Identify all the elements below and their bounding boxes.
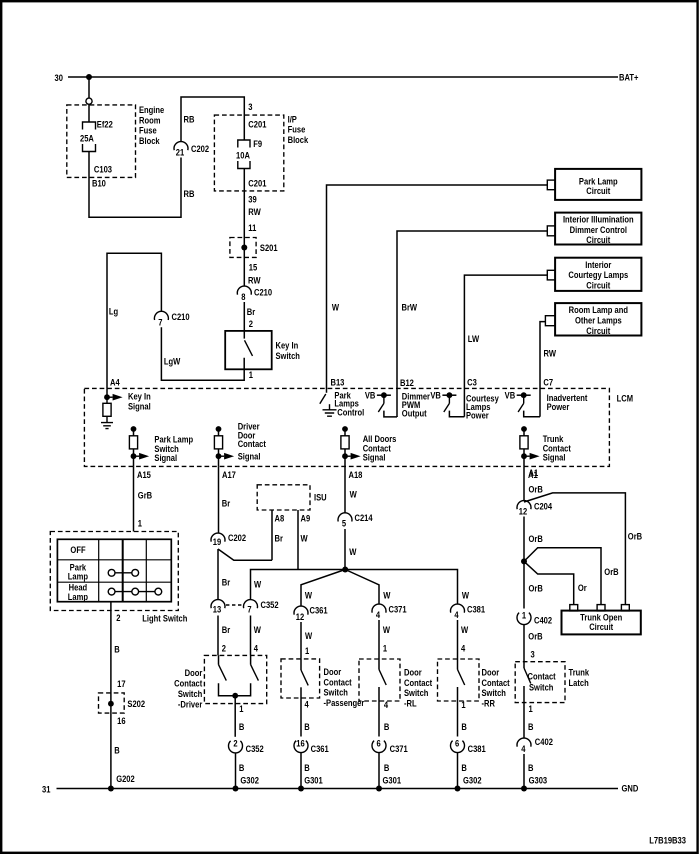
wire driver pin 2 stub <box>218 655 220 664</box>
LCM C3 VB switch <box>442 394 456 396</box>
wire OrB from C204 to junction <box>523 517 525 562</box>
wire C352 pin7 to driver pin 4 <box>250 616 252 656</box>
connector C371 pin 6 <box>372 741 386 753</box>
connector C214 pin 5 <box>338 513 352 522</box>
svg-text:25A: 25A <box>80 133 95 144</box>
wire Br to key in switch <box>243 302 245 339</box>
wire key in switch pin1 left to C210 pin7 <box>161 327 244 380</box>
svg-text:4: 4 <box>376 609 380 620</box>
svg-text:8: 8 <box>241 291 245 302</box>
svg-text:OrB: OrB <box>529 483 543 494</box>
svg-text:C381: C381 <box>468 743 486 754</box>
trunk latch contact switch <box>523 662 525 668</box>
svg-text:F9: F9 <box>253 138 262 149</box>
svg-text:7: 7 <box>247 603 251 614</box>
svg-text:Or: Or <box>578 582 587 593</box>
wire driver pin 1 down to C352 pin 2 <box>234 696 236 737</box>
connector C204 pin 12 <box>517 501 531 510</box>
connector C352 pin 13 <box>211 600 225 609</box>
wire fuse Ef22 down and right to RB riser <box>89 152 181 218</box>
svg-text:G202: G202 <box>116 773 135 784</box>
LCM B12 VB switch <box>377 394 391 396</box>
wire B to G302 <box>457 753 459 789</box>
svg-text:B: B <box>461 762 466 773</box>
interior courtesy lamps circuit box <box>555 258 641 291</box>
svg-text:16: 16 <box>117 715 126 726</box>
LCM module box <box>84 388 609 466</box>
svg-text:Br: Br <box>247 306 256 317</box>
svg-text:4: 4 <box>305 699 309 710</box>
wire C361 pin12 to passenger pin 1 <box>300 622 302 659</box>
svg-text:C361: C361 <box>310 604 328 615</box>
wire Br down to C352 pin 13 <box>217 549 219 600</box>
svg-text:Circuit: Circuit <box>589 621 613 632</box>
svg-text:B: B <box>114 643 119 654</box>
net GND bus wire <box>57 788 619 790</box>
svg-text:19: 19 <box>213 536 222 547</box>
light switch outer box <box>50 532 178 611</box>
svg-text:C402: C402 <box>535 736 553 747</box>
svg-text:13: 13 <box>213 603 222 614</box>
wire BAT+ to fuse block <box>88 77 90 98</box>
connector C352 pin 7 <box>243 600 257 609</box>
svg-text:Switch: Switch <box>276 350 300 361</box>
junction on BAT+ <box>86 74 92 80</box>
svg-text:B: B <box>239 721 244 732</box>
svg-text:12: 12 <box>519 505 528 516</box>
svg-text:LW: LW <box>468 333 480 344</box>
svg-text:5: 5 <box>342 518 346 529</box>
svg-text:C201: C201 <box>248 119 266 130</box>
LCM trunk contact signal input <box>521 426 527 432</box>
light switch head lamp contacts <box>108 588 115 595</box>
svg-text:C210: C210 <box>172 311 190 322</box>
svg-text:G302: G302 <box>463 774 482 785</box>
LCM pin A4 key in signal <box>106 388 108 397</box>
svg-text:RB: RB <box>184 113 195 124</box>
wire RW from LCM C7 to room lamp circuit <box>540 322 545 417</box>
svg-text:OrB: OrB <box>529 533 543 544</box>
wire OrB junction down to C402 pin 1 <box>523 561 525 608</box>
wire W from A18 to C214 <box>344 466 346 512</box>
svg-text:4: 4 <box>454 609 458 620</box>
svg-text:Power: Power <box>547 401 570 412</box>
svg-text:3: 3 <box>248 101 252 112</box>
svg-text:S202: S202 <box>127 698 145 709</box>
svg-text:W: W <box>301 532 309 543</box>
svg-text:B13: B13 <box>331 376 345 387</box>
svg-text:-Driver: -Driver <box>178 699 203 710</box>
svg-text:RW: RW <box>248 274 261 285</box>
wire OrB from A1 to C204 <box>523 466 525 500</box>
wire C381 pin4 to RR pin 4 <box>457 620 459 659</box>
svg-text:C371: C371 <box>390 743 408 754</box>
svg-text:C202: C202 <box>191 143 209 154</box>
svg-text:6: 6 <box>376 738 380 749</box>
svg-text:4: 4 <box>521 743 525 754</box>
svg-text:C381: C381 <box>467 603 485 614</box>
svg-text:1: 1 <box>239 703 243 714</box>
svg-text:B: B <box>528 721 533 732</box>
svg-text:2: 2 <box>249 318 253 329</box>
svg-text:C3: C3 <box>467 377 477 388</box>
LCM driver door contact signal input <box>216 426 222 432</box>
svg-text:C202: C202 <box>228 532 246 543</box>
svg-text:G301: G301 <box>383 774 402 785</box>
svg-text:-RR: -RR <box>482 698 496 709</box>
svg-text:W: W <box>383 624 391 635</box>
wire Or junction to trunk open circuit left tab <box>524 561 574 604</box>
svg-text:B: B <box>239 762 244 773</box>
svg-text:Output: Output <box>402 407 427 418</box>
svg-text:7: 7 <box>158 316 162 327</box>
svg-text:ISU: ISU <box>314 491 327 502</box>
wire Br from A17 to C202 pin 19 <box>218 466 220 533</box>
wire OrB branch to trunk open circuit right tab <box>524 493 625 605</box>
svg-text:31: 31 <box>42 783 51 794</box>
driver switch blades <box>219 665 259 681</box>
svg-text:A9: A9 <box>301 512 311 523</box>
svg-text:21: 21 <box>176 146 185 157</box>
junction trunk node <box>521 558 527 564</box>
svg-text:11: 11 <box>248 222 256 233</box>
svg-text:GND: GND <box>622 783 639 794</box>
svg-text:Signal: Signal <box>128 401 151 412</box>
svg-text:2: 2 <box>116 612 120 623</box>
net BAT+ bus wire <box>68 76 618 78</box>
wire driver pin 4 stub <box>250 655 252 664</box>
svg-text:Circuit: Circuit <box>586 185 610 196</box>
svg-text:Br: Br <box>275 532 284 543</box>
wire junction to C371 pin 4 <box>345 570 379 605</box>
I/P fuse block box <box>214 115 283 191</box>
dashed link between C352 pins <box>226 604 243 606</box>
LCM B13 park lamps control switch <box>320 394 326 404</box>
key in switch box <box>225 331 272 369</box>
wire W from C214 to junction <box>344 529 346 570</box>
wire Lg up over and down to LCM A4 <box>107 253 161 388</box>
svg-text:4: 4 <box>254 643 258 654</box>
svg-text:39: 39 <box>248 194 257 205</box>
svg-text:Br: Br <box>222 576 231 587</box>
svg-text:B: B <box>304 762 309 773</box>
wire B from C402 pin4 to G303 <box>523 754 525 789</box>
connector ring C103 <box>86 98 92 104</box>
wire C371 pin4 to RL pin 1 <box>378 620 380 659</box>
svg-text:17: 17 <box>117 678 126 689</box>
svg-text:OrB: OrB <box>604 566 618 577</box>
svg-text:-RL: -RL <box>404 698 417 709</box>
svg-text:A18: A18 <box>349 469 363 480</box>
svg-text:Latch: Latch <box>569 677 589 688</box>
connector C361 pin 16 <box>294 741 308 753</box>
svg-text:BrW: BrW <box>402 301 418 312</box>
svg-text:Circuit: Circuit <box>586 280 610 291</box>
svg-text:Circuit: Circuit <box>586 325 610 336</box>
svg-text:B: B <box>384 721 389 732</box>
svg-text:C361: C361 <box>311 743 329 754</box>
wire junction to C361 pin 12 <box>301 570 345 607</box>
wire light switch pin 2 down to ground G202 <box>110 602 112 789</box>
wire OrB from C402 pin1 to trunk latch <box>523 625 525 662</box>
svg-text:Signal: Signal <box>154 452 177 463</box>
wire ISU A8 Br <box>271 510 273 560</box>
svg-text:Lg: Lg <box>109 306 118 317</box>
svg-text:B: B <box>528 762 533 773</box>
wire LW from LCM C3 to courtesy lamps circuit <box>464 275 547 417</box>
svg-text:Block: Block <box>139 135 160 146</box>
svg-text:Br: Br <box>222 498 231 509</box>
light switch park lamp contacts <box>108 569 115 576</box>
connector C371 pin 4 <box>372 604 386 613</box>
svg-text:Signal: Signal <box>543 452 566 463</box>
svg-text:C103: C103 <box>94 163 112 174</box>
svg-text:RW: RW <box>248 206 261 217</box>
svg-text:W: W <box>462 590 470 601</box>
wire F9 down to key in switch <box>243 169 245 287</box>
svg-text:A1: A1 <box>529 467 539 478</box>
resistor in key in signal <box>103 403 111 416</box>
svg-text:Block: Block <box>288 134 309 145</box>
svg-text:1: 1 <box>305 645 309 656</box>
svg-text:B: B <box>461 721 466 732</box>
trunk open circuit box <box>562 611 641 635</box>
svg-text:C201: C201 <box>248 178 266 189</box>
svg-text:G301: G301 <box>304 774 323 785</box>
light switch inner table <box>57 539 171 601</box>
svg-text:Switch: Switch <box>178 688 202 699</box>
svg-text:C371: C371 <box>389 603 407 614</box>
svg-text:3: 3 <box>531 648 535 659</box>
svg-text:10A: 10A <box>236 149 251 160</box>
door contact switch RR box <box>438 659 480 701</box>
connector C202 pin 19 <box>211 533 225 542</box>
svg-text:2: 2 <box>222 643 226 654</box>
svg-text:1: 1 <box>383 642 387 653</box>
svg-text:30: 30 <box>55 72 64 83</box>
wire junction to C352 pin 7 <box>251 570 346 600</box>
svg-text:OFF: OFF <box>70 544 85 555</box>
door contact switch RL box <box>359 659 400 701</box>
wire B to G301 <box>300 753 302 789</box>
ISU box <box>257 485 310 510</box>
wire RB riser up and over to I/P fuse <box>181 97 244 142</box>
svg-text:C402: C402 <box>534 615 552 626</box>
wire junction to C381 pin 4 <box>345 570 457 605</box>
svg-text:Br: Br <box>222 624 231 635</box>
svg-text:1: 1 <box>138 518 142 529</box>
wire B to G301 <box>378 753 380 789</box>
svg-text:C210: C210 <box>254 286 272 297</box>
svg-text:C204: C204 <box>534 500 552 511</box>
svg-text:B10: B10 <box>92 178 106 189</box>
junction all doors node <box>342 567 348 573</box>
svg-text:LgW: LgW <box>164 356 181 367</box>
connector C352 pin 2 <box>229 741 243 753</box>
engine room fuse block box <box>67 105 136 177</box>
svg-text:Circuit: Circuit <box>586 234 610 245</box>
svg-text:VB: VB <box>365 390 376 401</box>
svg-text:C214: C214 <box>355 512 373 523</box>
connector C381 pin 6 <box>450 741 464 753</box>
svg-text:W: W <box>305 630 313 641</box>
svg-text:RB: RB <box>184 188 195 199</box>
svg-text:Signal: Signal <box>238 451 261 462</box>
svg-text:16: 16 <box>296 738 305 749</box>
svg-text:15: 15 <box>249 261 258 272</box>
door contact switch passenger box <box>281 659 320 698</box>
svg-text:Control: Control <box>337 406 364 417</box>
svg-text:Contact: Contact <box>528 671 556 682</box>
wire W from LCM B13 to park lamp circuit <box>327 185 548 393</box>
svg-text:Contact: Contact <box>238 438 266 449</box>
connector C361 pin 12 <box>294 606 308 615</box>
wire C352 pin13 to driver pin 2 <box>217 616 219 656</box>
svg-text:GrB: GrB <box>138 489 152 500</box>
passenger switch <box>300 659 302 670</box>
connector C210 pin 7 <box>154 311 168 320</box>
svg-text:VB: VB <box>505 390 516 401</box>
connector C202 pin 21 <box>174 142 188 151</box>
svg-text:Signal: Signal <box>363 452 386 463</box>
svg-text:1: 1 <box>249 369 253 380</box>
svg-text:1: 1 <box>461 699 465 710</box>
wire BrW from LCM B12 to dimmer circuit <box>397 231 547 417</box>
svg-text:A15: A15 <box>137 469 151 480</box>
svg-text:A4: A4 <box>110 376 120 387</box>
svg-text:4: 4 <box>461 642 465 653</box>
svg-text:C352: C352 <box>261 599 279 610</box>
svg-text:12: 12 <box>296 611 305 622</box>
svg-text:B12: B12 <box>400 377 414 388</box>
door contact switch driver box <box>204 655 266 703</box>
connector C402 pin 1 <box>517 613 531 625</box>
svg-text:W: W <box>254 624 262 635</box>
svg-text:Interior Illumination: Interior Illumination <box>563 214 634 225</box>
svg-text:W: W <box>332 301 340 312</box>
LCM park lamp switch signal input <box>131 426 137 432</box>
svg-text:OrB: OrB <box>528 630 542 641</box>
svg-text:OrB: OrB <box>529 582 543 593</box>
trunk latch box <box>515 662 565 703</box>
svg-text:S201: S201 <box>260 242 278 253</box>
interior illumination dimmer control circuit box <box>555 213 641 245</box>
svg-text:1: 1 <box>522 609 526 620</box>
wire ring to fuse Ef22 <box>88 104 90 122</box>
svg-text:W: W <box>349 546 357 557</box>
splice S202 <box>99 693 125 713</box>
svg-text:VB: VB <box>430 390 441 401</box>
splice S201 <box>230 238 256 258</box>
room lamp and other lamps circuit box <box>555 303 641 335</box>
svg-text:6: 6 <box>455 738 459 749</box>
key in switch blade <box>245 340 253 356</box>
svg-text:OrB: OrB <box>628 531 642 542</box>
svg-text:Power: Power <box>466 409 489 420</box>
fuse F9 10A <box>238 140 250 148</box>
LCM all doors contact signal input <box>342 426 348 432</box>
svg-text:4: 4 <box>384 699 388 710</box>
svg-text:G302: G302 <box>240 774 259 785</box>
park lamp circuit box <box>555 169 641 200</box>
wire Br fork to ISU A8 join <box>218 549 272 560</box>
svg-text:RW: RW <box>544 347 557 358</box>
svg-text:W: W <box>305 590 313 601</box>
connector C402 pin 4 <box>517 738 531 747</box>
svg-text:BAT+: BAT+ <box>619 72 638 83</box>
connector C210 pin 8 <box>237 286 251 295</box>
svg-text:Ef22: Ef22 <box>97 119 113 130</box>
wire B to G302 <box>235 753 237 789</box>
svg-text:W: W <box>383 590 391 601</box>
svg-text:A8: A8 <box>275 512 285 523</box>
driver switch common bracket <box>219 683 251 695</box>
svg-text:L7B19B33: L7B19B33 <box>649 835 686 846</box>
svg-text:W: W <box>254 578 262 589</box>
ground at B13 switch <box>323 410 337 416</box>
RR switch <box>457 659 459 670</box>
svg-text:B: B <box>384 762 389 773</box>
svg-text:W: W <box>461 624 469 635</box>
svg-text:B: B <box>114 744 119 755</box>
svg-text:B: B <box>304 721 309 732</box>
wire ISU A9 W <box>297 510 299 570</box>
svg-text:G303: G303 <box>529 774 548 785</box>
svg-text:LCM: LCM <box>617 393 633 404</box>
connector C381 pin 4 <box>451 604 465 613</box>
svg-text:1: 1 <box>529 703 533 714</box>
svg-text:A17: A17 <box>222 469 236 480</box>
LCM C7 VB switch <box>517 394 531 396</box>
RL switch <box>378 659 380 670</box>
svg-text:Lamp: Lamp <box>68 571 88 582</box>
svg-text:Lamp: Lamp <box>68 591 88 602</box>
svg-text:Light Switch: Light Switch <box>142 612 187 623</box>
ground in LCM A4 <box>101 423 113 429</box>
svg-text:Switch: Switch <box>529 682 553 693</box>
svg-text:2: 2 <box>233 738 237 749</box>
wire OrB junction to trunk open circuit middle tab <box>524 548 601 605</box>
wire GrB from A15 to light switch <box>133 466 135 531</box>
svg-text:C7: C7 <box>543 377 553 388</box>
fuse Ef22 <box>83 122 96 130</box>
svg-text:W: W <box>350 488 358 499</box>
svg-text:C352: C352 <box>246 743 264 754</box>
